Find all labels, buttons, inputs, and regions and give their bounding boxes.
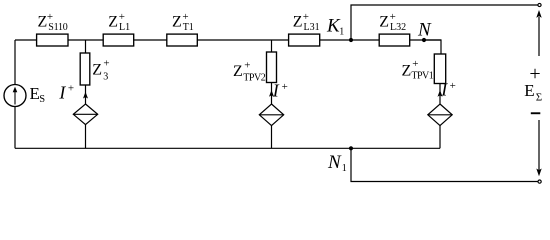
svg-text:S: S (39, 94, 45, 105)
svg-text:+: + (412, 58, 418, 70)
svg-text:Σ: Σ (536, 92, 542, 104)
label N1 (327, 152, 347, 174)
svg-text:L32: L32 (390, 22, 406, 33)
node K1 (349, 38, 353, 42)
svg-text:Z: Z (92, 61, 102, 78)
node N (422, 38, 426, 42)
label ZTPV1 (402, 58, 434, 81)
svg-text:T1: T1 (183, 22, 194, 33)
label ZL31 (293, 11, 320, 33)
wire bottom bus (15, 147, 440, 149)
resistor ZL32 (379, 34, 410, 46)
label ZTPV2 (233, 60, 266, 84)
label ZT1 (172, 11, 194, 33)
svg-text:Z: Z (402, 63, 412, 80)
svg-text:+: + (68, 83, 74, 95)
svg-text:Z: Z (38, 14, 48, 31)
resistor ZL1 (103, 34, 134, 46)
resistor ZTPV2 (267, 52, 277, 83)
wire TPV2 to diamond with current arrow (269, 83, 274, 105)
resistor ZS110 (37, 34, 68, 46)
current source diamond (TPV1 branch) (428, 104, 452, 126)
current source diamond (Z3 branch) (73, 104, 97, 125)
svg-text:TPV2: TPV2 (243, 73, 265, 84)
resistor ZL31 (289, 34, 320, 46)
svg-text:1: 1 (342, 163, 347, 174)
svg-text:I: I (440, 80, 448, 100)
svg-text:Z: Z (293, 14, 303, 31)
wire N to TPV1 branch (424, 40, 441, 54)
svg-text:+: + (450, 80, 456, 92)
label ESigma (524, 81, 542, 104)
terminal bottom-right (538, 180, 541, 183)
wire TPV1 to diamond with current arrow (438, 84, 443, 105)
svg-text:I: I (58, 83, 66, 103)
label ZS110 (38, 11, 68, 33)
resistor ZT1 (167, 34, 198, 46)
voltage arrow down (toward bottom terminal) (536, 120, 541, 176)
svg-text:Z: Z (108, 14, 118, 31)
current source diamond (TPV2 branch) (259, 104, 283, 126)
wire diamond to bottom bus (TPV1 branch) (439, 126, 441, 149)
label - (ESigma polarity) (531, 112, 541, 114)
wire main top bus (15, 39, 441, 41)
label ZL32 (379, 11, 406, 33)
svg-text:1: 1 (339, 27, 344, 38)
svg-text:Z: Z (379, 14, 389, 31)
svg-text:I: I (272, 81, 280, 101)
svg-text:N: N (417, 19, 432, 40)
resistor Z3 (80, 53, 90, 85)
svg-text:S110: S110 (48, 22, 67, 33)
label ZL1 (108, 11, 130, 33)
label ES (30, 84, 46, 105)
wire left drop to source (14, 40, 16, 85)
wire diamond to bottom bus (TPV2 branch) (271, 126, 273, 149)
wire K1 up to top-right terminal (351, 5, 538, 40)
voltage arrow up (toward top terminal) (536, 10, 541, 56)
voltage source ES (4, 85, 26, 107)
svg-text:L1: L1 (119, 22, 130, 33)
svg-text:TPV1: TPV1 (411, 71, 433, 82)
svg-text:N: N (327, 152, 342, 173)
svg-text:Z: Z (172, 14, 182, 31)
wire diamond to bottom bus (Z3 branch) (85, 125, 87, 149)
label I+ (TPV2 branch) (272, 81, 288, 101)
svg-text:L31: L31 (304, 22, 320, 33)
resistor ZTPV1 (434, 54, 445, 84)
label I+ (Z3 branch) (58, 83, 74, 103)
svg-text:3: 3 (103, 72, 108, 83)
wire branch TPV2 top (271, 40, 273, 52)
terminal top-right (538, 3, 541, 6)
svg-text:+: + (282, 81, 288, 93)
wire N1 down to bottom-right terminal (351, 148, 538, 181)
svg-text:E: E (524, 81, 534, 100)
svg-text:Z: Z (233, 63, 243, 80)
node N1 (349, 146, 353, 150)
wire branch Z3 top (85, 40, 87, 53)
wire source to bottom bus (14, 107, 16, 149)
label K1 (326, 16, 344, 38)
label Z3 (92, 57, 109, 82)
wire Z3 to diamond with current arrow (83, 85, 88, 104)
label I+ (TPV1 branch) (440, 80, 456, 100)
svg-text:+: + (103, 57, 109, 69)
svg-text:+: + (244, 60, 250, 72)
